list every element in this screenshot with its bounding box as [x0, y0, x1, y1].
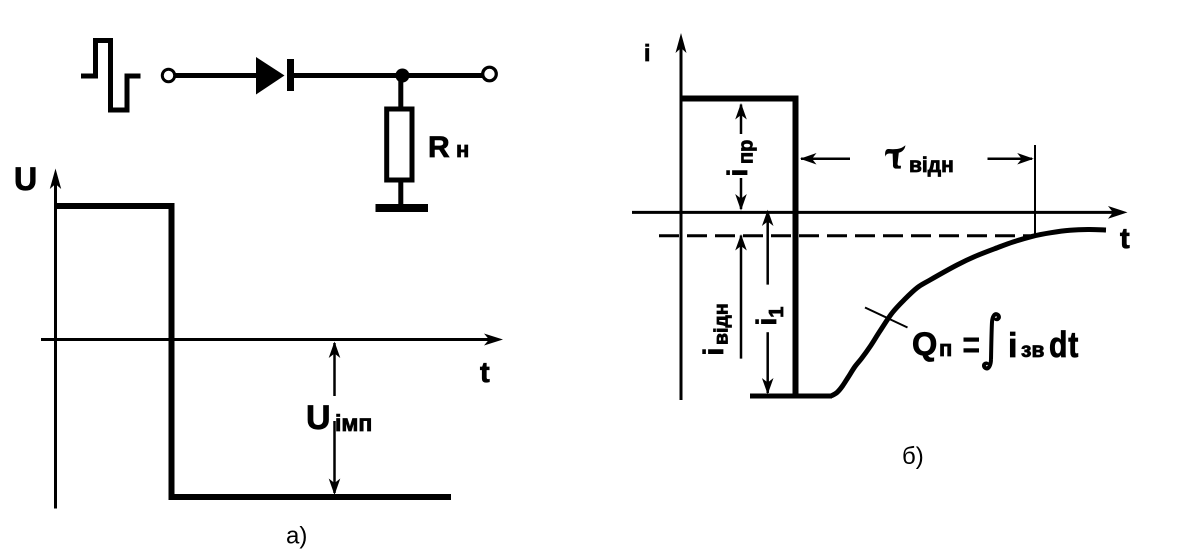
diode VD: [256, 57, 294, 95]
svg-text:t: t: [1120, 223, 1130, 255]
svg-text:б): б): [902, 443, 924, 470]
svg-text:i: i: [644, 40, 650, 66]
recovery time boundary tick: [1034, 145, 1036, 236]
current waveform high level and falling edge: [682, 99, 796, 397]
svg-text:U: U: [14, 161, 37, 197]
right graph X axis: [632, 211, 1116, 214]
wire diode to node: [293, 73, 403, 78]
left graph Y axis: [54, 178, 57, 509]
svg-text:зв: зв: [1021, 339, 1044, 362]
resistor Rн: [387, 109, 412, 180]
label τ (tau): [885, 145, 905, 157]
svg-text:імп: імп: [335, 410, 372, 436]
pulse waveform U(t): [56, 206, 452, 497]
svg-text:а): а): [286, 523, 307, 550]
wire input to diode: [176, 73, 259, 78]
pulse source symbol: [81, 41, 141, 111]
τ відн left arrow: [801, 158, 850, 161]
svg-text:dt: dt: [1049, 326, 1079, 366]
svg-text:t: t: [480, 357, 490, 389]
leader tick on curve: [865, 308, 908, 328]
Uімп arrow lower segment: [333, 421, 336, 493]
wire node to output terminal: [403, 73, 483, 78]
ground: [376, 204, 429, 212]
current waveform bottom level: [750, 394, 832, 399]
output terminal: [483, 67, 497, 81]
і 1 arrow upper segment: [766, 211, 769, 285]
svg-text:п: п: [939, 336, 952, 361]
і пр arrow upper segment: [740, 105, 743, 135]
svg-text:U: U: [306, 399, 331, 437]
і пр arrow lower segment: [740, 178, 743, 209]
τ відн right arrow: [988, 158, 1033, 161]
dashed recovery level line: [659, 234, 1030, 237]
і 1 arrow lower segment: [766, 332, 769, 393]
wire node down to resistor: [398, 76, 403, 110]
equals sign: [964, 338, 980, 342]
svg-text:відн: відн: [909, 154, 954, 177]
integral sign: [984, 314, 999, 368]
recovery curve: [831, 229, 1106, 396]
left graph X axis: [41, 338, 492, 341]
і відн arrow: [740, 236, 743, 359]
Uімп arrow upper segment: [333, 343, 336, 396]
node junction dot: [395, 69, 409, 83]
input terminal: [162, 69, 174, 81]
right graph Y axis: [680, 44, 683, 400]
svg-text:Q: Q: [912, 326, 937, 362]
svg-text:R: R: [428, 131, 450, 164]
svg-text:н: н: [456, 137, 469, 162]
wire resistor to ground: [398, 180, 403, 205]
svg-text:i: i: [1008, 327, 1017, 365]
